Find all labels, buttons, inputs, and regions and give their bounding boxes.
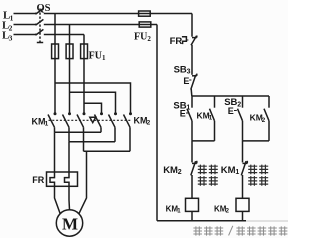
button SB2 blade (NO) <box>238 109 243 121</box>
interlock text 联锁触头 (branch1, fake glyphs) <box>198 165 218 186</box>
svg-text:SB: SB <box>174 64 187 75</box>
switch QS pole 2 blade <box>35 24 37 26</box>
button SB3 blade (NC) <box>191 75 196 90</box>
wire U to motor <box>55 186 61 214</box>
fuse FU1 phase A <box>52 44 59 59</box>
svg-text:E: E <box>183 76 189 86</box>
faint bottom line continuation <box>246 220 288 222</box>
wire phase C vertical <box>83 35 85 114</box>
aux contact KM1 label <box>197 111 213 122</box>
svg-text:KM: KM <box>134 115 148 125</box>
label FU2 <box>134 31 151 43</box>
motor M letter <box>62 214 78 233</box>
switch QS pole 1 blade <box>35 13 37 15</box>
thermal relay FR box <box>47 172 78 186</box>
contactor KM2 pole 1 <box>100 112 103 115</box>
button SB1 actuator E <box>180 109 186 119</box>
svg-text:FU: FU <box>134 31 147 42</box>
fuse FU2b (lower) <box>139 22 151 27</box>
aux contact KM1 bottom stub <box>214 121 216 141</box>
svg-text:M: M <box>62 214 78 233</box>
svg-text:2: 2 <box>262 117 266 124</box>
button SB1 top stub <box>191 96 193 108</box>
contactor KM1 pole 1 <box>54 112 57 115</box>
contactor KM1 pole 2 <box>68 112 71 115</box>
wire coil KM2 to bottom <box>242 211 244 220</box>
svg-text:E: E <box>180 109 186 119</box>
thermal contact FR actuator symbol <box>182 37 187 44</box>
interlock contact KM1 label <box>221 165 240 176</box>
thermal contact FR blade <box>191 36 197 45</box>
svg-text:2: 2 <box>178 169 182 176</box>
wire joint W phase <box>84 150 131 152</box>
svg-text:1: 1 <box>235 169 239 176</box>
svg-text:2: 2 <box>147 35 151 43</box>
switch QS handle bar <box>37 42 43 44</box>
wire L3 incoming <box>14 34 36 36</box>
wire interlock to coil KM2 <box>242 175 244 198</box>
button SB2 actuator E <box>228 106 234 116</box>
switch QS pole 3 blade <box>35 34 37 36</box>
wire L3 to phase C <box>44 34 84 36</box>
wire control bus <box>192 95 269 97</box>
thermal relay FR heater phase A <box>50 172 55 186</box>
button SB2 bottom stub <box>242 121 244 141</box>
wire L1 incoming <box>14 13 36 15</box>
interlock contact KM2 bar <box>192 162 197 164</box>
svg-text:1: 1 <box>45 121 49 128</box>
wire coil KM1 to bottom <box>191 211 193 220</box>
aux contact KM2 blade (NO) <box>264 109 269 121</box>
wire interlock to coil KM1 <box>191 175 193 198</box>
wire crossover C to KM2 pole1 <box>84 103 102 113</box>
interlock contact KM2 blade (NC) <box>191 161 196 175</box>
wire U drop to FR <box>54 132 56 172</box>
interlock contact KM1 bar <box>243 162 248 164</box>
svg-text:2: 2 <box>147 120 151 127</box>
button SB1 blade (NO) <box>187 109 192 121</box>
wire branch2 bottom U <box>243 140 270 142</box>
svg-text:E: E <box>228 106 234 116</box>
switch QS label <box>37 3 51 14</box>
wire crossover A to KM2 pole3 <box>55 83 131 113</box>
svg-text:FR: FR <box>32 175 44 185</box>
label FU1 <box>89 51 106 63</box>
mechanical linkage dashed <box>49 119 132 121</box>
wire crossover B to KM2 pole2 <box>70 92 116 113</box>
wire control bottom return <box>157 220 246 222</box>
svg-text:1: 1 <box>10 13 14 22</box>
interlock contact KM2 label <box>163 165 182 176</box>
svg-text:KM: KM <box>221 165 236 176</box>
watermark 头条号 / 高峡平湖加 (fake glyphs) <box>193 226 287 236</box>
svg-text:KM: KM <box>163 165 178 176</box>
fuse FU2a (upper) <box>139 11 151 16</box>
contactor KM2 pole 2 <box>114 112 117 115</box>
svg-text:KM: KM <box>32 116 46 126</box>
control rail vertical from L1 <box>191 14 193 37</box>
wire joint V phase <box>69 141 115 143</box>
coil KM1 label <box>166 204 182 214</box>
thermal contact FR (NC) label <box>170 36 183 47</box>
wire left control rail <box>156 25 158 221</box>
interlock text 联锁触头 (branch2, fake glyphs) <box>248 165 268 186</box>
contactor KM1 label <box>32 116 49 127</box>
wire branch2 to interlock <box>242 141 244 163</box>
svg-text:2: 2 <box>237 101 241 108</box>
wire L2 incoming <box>14 24 36 26</box>
thermal relay FR label <box>32 175 44 185</box>
aux contact KM2 top stub <box>268 96 270 108</box>
coil KM1 box <box>186 198 199 211</box>
button SB3 label <box>174 64 191 75</box>
aux contact KM1 blade (NO) <box>210 109 215 121</box>
aux contact KM2 bottom stub <box>268 121 270 141</box>
svg-text:FR: FR <box>170 36 183 47</box>
wire joint U phase <box>55 131 102 133</box>
node L2 label <box>2 20 13 33</box>
wire V to motor <box>68 186 71 210</box>
wire W drop to motor <box>79 151 87 214</box>
svg-text:1: 1 <box>102 54 106 62</box>
coil KM2 box <box>236 198 249 211</box>
wire L2 to fuse FU2b <box>44 24 157 26</box>
button SB3 actuator E <box>183 76 189 86</box>
motor M circle <box>56 210 82 236</box>
aux contact KM1 top stub <box>214 96 216 108</box>
contactor KM1 pole 3 <box>83 112 86 115</box>
node L1 label <box>3 10 14 23</box>
button SB1 label <box>173 100 190 111</box>
thermal relay FR heater phase B <box>65 172 70 186</box>
aux contact KM2 label <box>250 113 266 124</box>
contactor KM2 pole 3 <box>129 112 132 115</box>
wire L1 to control rail <box>44 13 192 15</box>
svg-text:3: 3 <box>187 69 191 76</box>
button SB1 bottom stub <box>191 121 193 141</box>
wire V drop to FR <box>68 142 70 172</box>
wire phase B vertical <box>69 25 71 114</box>
switch QS linkage dashed <box>39 9 41 43</box>
wire branch1 to interlock <box>191 141 193 163</box>
fuse FU1 phase B <box>66 44 73 59</box>
wire phase A vertical <box>54 14 56 114</box>
contactor KM2 label <box>134 115 151 126</box>
wire rail FR to SB3 <box>191 45 193 75</box>
button SB3 bar <box>192 75 197 77</box>
thermal contact FR bar <box>192 37 197 39</box>
wire rail SB3 to bus <box>190 89 193 96</box>
svg-text:3: 3 <box>9 33 13 42</box>
node L3 label <box>2 30 13 43</box>
coil KM2 label <box>214 204 230 214</box>
wire branch1 bottom U <box>192 140 215 142</box>
svg-text:FU: FU <box>89 51 102 62</box>
button SB2 top stub <box>242 96 244 108</box>
interlock contact KM1 blade (NC) <box>241 161 246 175</box>
mechanical interlock triangle <box>90 117 96 122</box>
fuse FU1 phase C <box>81 44 88 59</box>
button SB2 label <box>224 97 241 108</box>
